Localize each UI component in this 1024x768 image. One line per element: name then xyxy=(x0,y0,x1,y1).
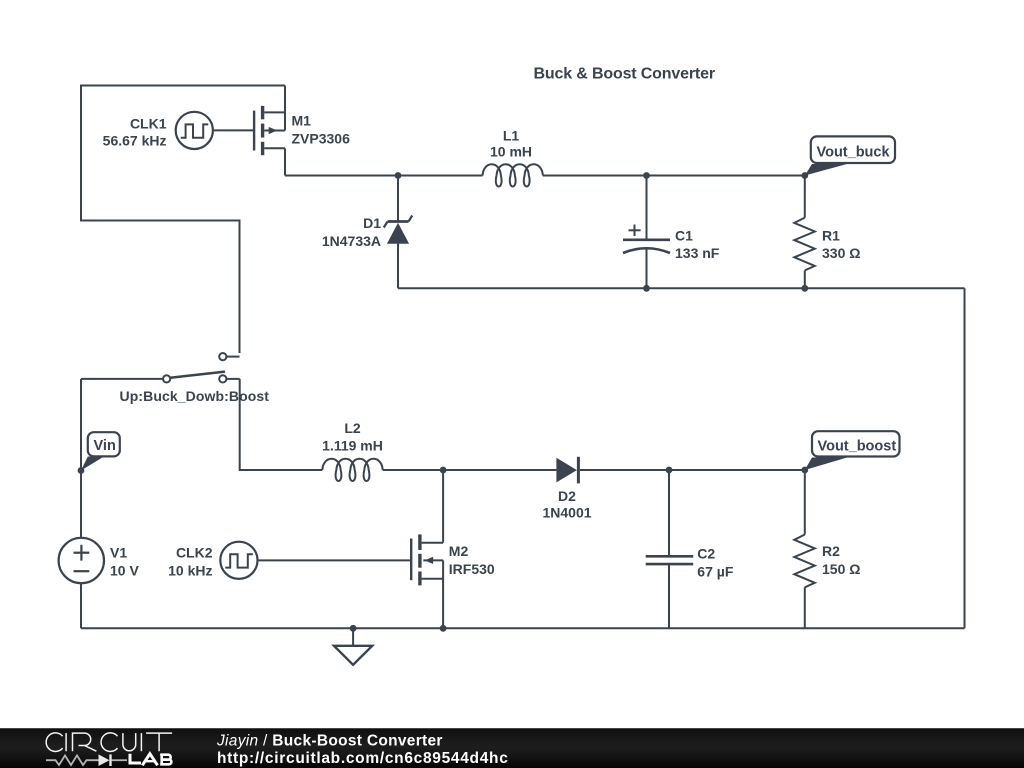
svg-text:56.67 kHz: 56.67 kHz xyxy=(103,132,167,148)
bottom rail xyxy=(81,627,965,629)
svg-text:1N4733A: 1N4733A xyxy=(322,233,381,249)
node C1 bottom xyxy=(643,285,650,292)
svg-text:Vout_boost: Vout_boost xyxy=(818,439,897,455)
wire left rail to Vin node xyxy=(80,379,82,471)
clock source CLK1 xyxy=(176,112,213,149)
svg-text:150 Ω: 150 Ω xyxy=(822,561,860,577)
svg-text:CLK2: CLK2 xyxy=(176,545,213,561)
svg-text:Jiayin / Buck-Boost Converter: Jiayin / Buck-Boost Converter xyxy=(216,733,443,750)
voltage source V1 xyxy=(80,471,82,538)
node at D1 top xyxy=(395,172,402,179)
inductor L2 xyxy=(322,459,382,481)
wire top loop xyxy=(81,86,285,354)
ground symbol xyxy=(352,628,354,646)
node Vin xyxy=(78,467,85,474)
resistor R1 xyxy=(804,176,806,218)
svg-text:ZVP3306: ZVP3306 xyxy=(292,130,351,146)
logo resistor-diode squiggle xyxy=(46,754,127,766)
wire switch bottom throw xyxy=(226,378,239,380)
net flag Vin xyxy=(81,457,104,471)
wire L2 to D2 xyxy=(383,469,557,471)
capacitor C2 xyxy=(668,470,670,556)
node at R1 top xyxy=(801,172,808,179)
node M2 drain xyxy=(440,467,447,474)
svg-text:V1: V1 xyxy=(110,545,127,561)
svg-text:IRF530: IRF530 xyxy=(449,561,495,577)
transistor M2 (NMOS) xyxy=(410,539,412,581)
svg-text:67 µF: 67 µF xyxy=(697,564,734,580)
node C2 top xyxy=(666,467,673,474)
resistor R2 xyxy=(804,470,806,535)
wire switch to L2 xyxy=(240,379,323,470)
net flag Vout_buck xyxy=(805,164,847,176)
node R1 bottom xyxy=(801,285,808,292)
svg-text:330 Ω: 330 Ω xyxy=(822,245,860,261)
node M2 source bottom xyxy=(440,625,447,632)
wire M1 drain to L1 xyxy=(285,175,483,177)
diode D2 xyxy=(556,458,577,483)
svg-text:M2: M2 xyxy=(449,543,469,559)
svg-text:http://circuitlab.com/cn6c8954: http://circuitlab.com/cn6c89544d4hc xyxy=(217,750,509,767)
inductor L1 xyxy=(483,164,543,186)
svg-text:L1: L1 xyxy=(503,128,520,144)
wire CLK2 to M2 gate xyxy=(258,559,412,561)
clock source CLK2 xyxy=(220,542,257,579)
svg-text:10 mH: 10 mH xyxy=(490,144,532,160)
right vertical rail xyxy=(964,288,966,628)
wire L1 to Vout_buck xyxy=(543,175,805,177)
footer bar xyxy=(0,729,1024,768)
logo CIRCUIT xyxy=(46,733,172,752)
wire CLK1 to M1 gate xyxy=(213,129,254,131)
logo LAB xyxy=(130,754,171,766)
svg-text:M1: M1 xyxy=(292,112,312,128)
svg-text:C2: C2 xyxy=(697,546,715,562)
net flag Vout_boost xyxy=(805,458,847,471)
svg-text:L2: L2 xyxy=(344,420,361,436)
svg-text:D1: D1 xyxy=(363,215,381,231)
capacitor C1 (polarized) xyxy=(646,176,648,240)
node at C1 top xyxy=(643,172,650,179)
svg-text:D2: D2 xyxy=(558,488,576,504)
node ground xyxy=(350,625,357,632)
svg-text:1.119 mH: 1.119 mH xyxy=(322,438,383,454)
svg-text:133 nF: 133 nF xyxy=(675,245,720,261)
svg-text:Up:Buck_Dowb:Boost: Up:Buck_Dowb:Boost xyxy=(120,388,270,404)
node R2 top xyxy=(801,467,808,474)
wire switch common to left rail xyxy=(81,378,163,380)
switch SW1 xyxy=(227,356,240,358)
svg-text:C1: C1 xyxy=(675,228,693,244)
svg-text:Vout_buck: Vout_buck xyxy=(817,145,891,161)
svg-text:10 V: 10 V xyxy=(110,563,139,579)
zener diode D1 xyxy=(397,176,399,222)
svg-text:1N4001: 1N4001 xyxy=(542,505,591,521)
transistor M1 (PMOS) xyxy=(253,111,255,151)
svg-text:10 kHz: 10 kHz xyxy=(168,563,212,579)
svg-text:Buck & Boost Converter: Buck & Boost Converter xyxy=(534,66,715,83)
svg-text:R1: R1 xyxy=(822,228,840,244)
buck bottom rail xyxy=(398,287,965,289)
svg-text:CLK1: CLK1 xyxy=(130,115,167,131)
svg-text:Vin: Vin xyxy=(94,438,116,454)
svg-text:R2: R2 xyxy=(822,543,840,559)
